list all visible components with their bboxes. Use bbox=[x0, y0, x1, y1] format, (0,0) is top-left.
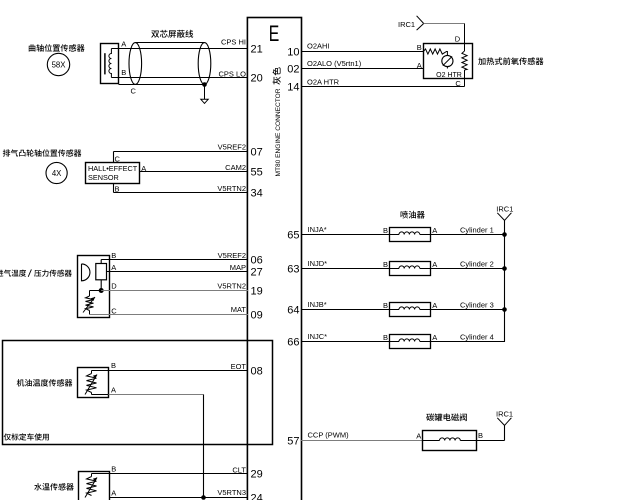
svg-text:B: B bbox=[383, 301, 388, 310]
svg-text:C: C bbox=[115, 154, 121, 163]
svg-text:V5RTN2: V5RTN2 bbox=[217, 184, 246, 193]
svg-text:C: C bbox=[111, 307, 117, 316]
svg-text:Cylinder 3: Cylinder 3 bbox=[460, 301, 494, 310]
svg-text:66: 66 bbox=[287, 337, 299, 349]
svg-text:CPS LO: CPS LO bbox=[218, 69, 246, 78]
svg-text:B: B bbox=[111, 465, 116, 474]
svg-text:CLT: CLT bbox=[232, 465, 246, 474]
svg-text:IRC1: IRC1 bbox=[496, 409, 513, 418]
svg-text:V5REF2: V5REF2 bbox=[218, 251, 246, 260]
svg-text:Cylinder 4: Cylinder 4 bbox=[460, 333, 494, 342]
svg-text:A: A bbox=[111, 385, 116, 394]
svg-text:A: A bbox=[111, 488, 116, 497]
svg-text:C: C bbox=[131, 87, 137, 96]
svg-text:CAM2: CAM2 bbox=[225, 163, 246, 172]
svg-text:65: 65 bbox=[287, 230, 299, 242]
svg-text:INJB*: INJB* bbox=[308, 300, 327, 309]
svg-text:D: D bbox=[455, 35, 461, 44]
svg-text:B: B bbox=[383, 333, 388, 342]
svg-text:MAP: MAP bbox=[230, 263, 246, 272]
svg-text:INJD*: INJD* bbox=[308, 259, 328, 268]
svg-text:O2AHI: O2AHI bbox=[307, 42, 330, 51]
svg-text:A: A bbox=[432, 301, 437, 310]
svg-text:O2A HTR: O2A HTR bbox=[307, 77, 340, 86]
svg-text:02: 02 bbox=[287, 64, 299, 76]
svg-text:Cylinder 1: Cylinder 1 bbox=[460, 226, 494, 235]
svg-text:07: 07 bbox=[251, 147, 263, 159]
svg-text:64: 64 bbox=[287, 305, 299, 317]
svg-text:09: 09 bbox=[251, 310, 263, 322]
svg-text:B: B bbox=[478, 431, 483, 440]
svg-text:B: B bbox=[111, 361, 116, 370]
svg-text:A: A bbox=[417, 61, 422, 70]
svg-text:A: A bbox=[121, 40, 126, 49]
svg-text:20: 20 bbox=[251, 73, 263, 85]
svg-text:4X: 4X bbox=[52, 169, 62, 178]
svg-text:B: B bbox=[111, 251, 116, 260]
svg-text:B: B bbox=[417, 43, 422, 52]
svg-text:B: B bbox=[121, 68, 126, 77]
svg-text:EOT: EOT bbox=[231, 362, 247, 371]
svg-text:Cylinder 2: Cylinder 2 bbox=[460, 260, 494, 269]
svg-text:34: 34 bbox=[251, 188, 263, 200]
svg-text:CPS HI: CPS HI bbox=[221, 37, 246, 46]
svg-text:INJA*: INJA* bbox=[308, 225, 327, 234]
svg-text:B: B bbox=[383, 226, 388, 235]
svg-text:06: 06 bbox=[251, 255, 263, 267]
svg-text:IRC1: IRC1 bbox=[398, 20, 415, 29]
svg-text:V5RTN2: V5RTN2 bbox=[217, 281, 246, 290]
svg-text:29: 29 bbox=[251, 469, 263, 481]
svg-text:V5REF2: V5REF2 bbox=[218, 142, 246, 151]
svg-text:MT80 ENGINE CONNECTOR: MT80 ENGINE CONNECTOR bbox=[275, 88, 282, 176]
svg-text:A: A bbox=[141, 164, 146, 173]
svg-text:55: 55 bbox=[251, 167, 263, 179]
svg-text:INJC*: INJC* bbox=[308, 332, 328, 341]
svg-text:63: 63 bbox=[287, 264, 299, 276]
svg-text:19: 19 bbox=[251, 286, 263, 298]
svg-text:21: 21 bbox=[251, 44, 263, 56]
svg-text:E: E bbox=[269, 21, 280, 46]
svg-text:14: 14 bbox=[287, 82, 299, 94]
svg-text:C: C bbox=[455, 79, 461, 88]
svg-text:24: 24 bbox=[251, 493, 263, 500]
svg-text:IRC1: IRC1 bbox=[496, 204, 513, 213]
svg-text:CCP (PWM): CCP (PWM) bbox=[308, 431, 350, 440]
svg-text:B: B bbox=[383, 260, 388, 269]
svg-text:V5RTN3: V5RTN3 bbox=[217, 488, 246, 497]
svg-text:O2ALO (V5rtn1): O2ALO (V5rtn1) bbox=[307, 59, 362, 68]
svg-text:08: 08 bbox=[251, 366, 263, 378]
svg-text:A: A bbox=[111, 263, 116, 272]
svg-text:SENSOR: SENSOR bbox=[88, 173, 119, 182]
svg-text:10: 10 bbox=[287, 47, 299, 59]
svg-text:A: A bbox=[416, 431, 421, 440]
svg-text:A: A bbox=[432, 226, 437, 235]
svg-text:57: 57 bbox=[287, 436, 299, 448]
svg-text:HALL•EFFECT: HALL•EFFECT bbox=[88, 164, 138, 173]
svg-text:MAT: MAT bbox=[231, 305, 247, 314]
svg-text:A: A bbox=[432, 333, 437, 342]
svg-text:A: A bbox=[432, 260, 437, 269]
svg-text:27: 27 bbox=[251, 267, 263, 279]
svg-text:B: B bbox=[115, 184, 120, 193]
svg-text:58X: 58X bbox=[52, 60, 67, 69]
svg-text:D: D bbox=[111, 282, 117, 291]
